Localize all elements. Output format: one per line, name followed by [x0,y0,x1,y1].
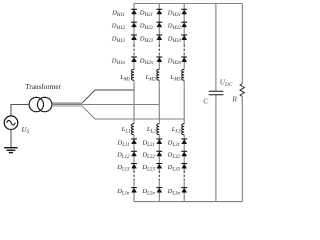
svg-text:R: R [231,95,237,104]
svg-text:C: C [203,97,208,106]
svg-text:Transformer: Transformer [25,83,61,91]
